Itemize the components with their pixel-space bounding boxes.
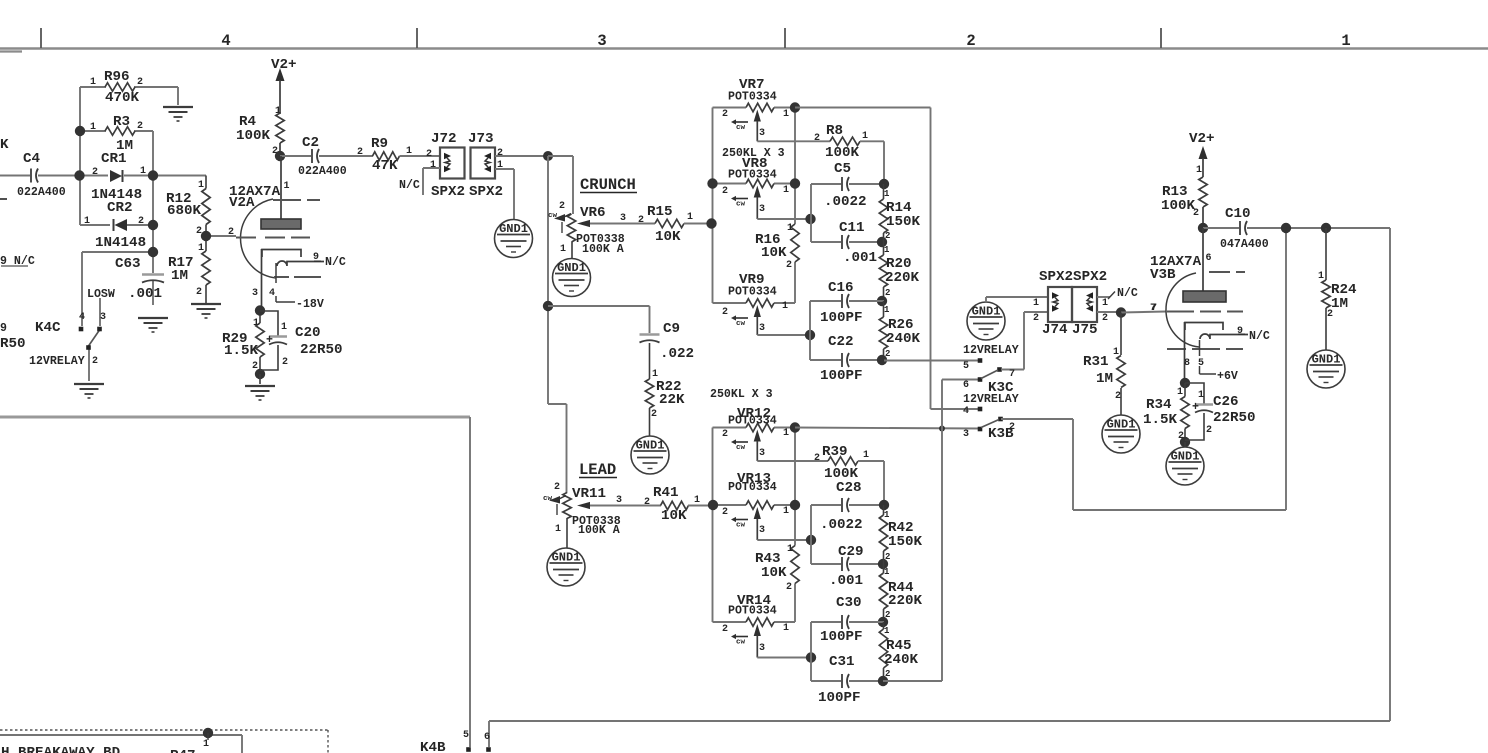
svg-text:1: 1	[687, 212, 693, 223]
svg-text:LOSW: LOSW	[87, 288, 115, 301]
svg-text:1M: 1M	[171, 268, 188, 284]
svg-text:cw: cw	[736, 124, 746, 132]
svg-text:C11: C11	[839, 220, 865, 236]
svg-text:1: 1	[1341, 32, 1350, 50]
svg-text:1: 1	[782, 301, 788, 312]
svg-text:.022: .022	[660, 346, 694, 362]
svg-text:3: 3	[252, 288, 258, 299]
svg-text:1: 1	[430, 160, 436, 171]
svg-text:2: 2	[228, 227, 234, 238]
svg-text:J72: J72	[431, 131, 457, 147]
svg-text:1: 1	[1318, 271, 1324, 282]
svg-text:K4B: K4B	[420, 740, 446, 753]
svg-text:3: 3	[759, 204, 765, 215]
svg-text:2: 2	[722, 624, 728, 635]
svg-text:1: 1	[203, 739, 209, 750]
svg-text:2: 2	[722, 307, 728, 318]
svg-text:047A400: 047A400	[1220, 238, 1269, 251]
svg-text:100K: 100K	[1161, 198, 1196, 214]
svg-text:SPX2: SPX2	[469, 184, 503, 200]
svg-text:2: 2	[92, 356, 98, 367]
svg-text:2: 2	[786, 260, 792, 271]
svg-text:2: 2	[1033, 313, 1039, 324]
svg-text:2: 2	[651, 409, 657, 420]
svg-text:C20: C20	[295, 325, 321, 341]
svg-text:12VRELAY: 12VRELAY	[29, 355, 85, 368]
svg-text:2: 2	[137, 121, 143, 132]
svg-text:2: 2	[722, 109, 728, 120]
svg-text:3: 3	[963, 429, 969, 440]
svg-text:VR6: VR6	[580, 205, 606, 221]
svg-text:2: 2	[1206, 425, 1212, 436]
svg-text:J75: J75	[1072, 322, 1098, 338]
svg-text:1: 1	[884, 189, 890, 199]
svg-text:680K: 680K	[167, 203, 202, 219]
svg-text:5: 5	[963, 361, 969, 372]
svg-text:100PF: 100PF	[818, 690, 861, 706]
svg-text:R31: R31	[1083, 354, 1109, 370]
svg-text:2: 2	[786, 582, 792, 593]
svg-text:10K: 10K	[761, 245, 787, 261]
svg-text:1: 1	[884, 305, 890, 315]
svg-text:3: 3	[759, 643, 765, 654]
svg-text:POT0334: POT0334	[728, 91, 777, 104]
svg-text:2: 2	[282, 357, 288, 368]
svg-text:C29: C29	[838, 544, 864, 560]
svg-text:N/C: N/C	[325, 256, 346, 269]
svg-text:2: 2	[1115, 391, 1121, 402]
svg-text:1: 1	[90, 77, 96, 88]
svg-text:10K: 10K	[661, 508, 687, 524]
svg-text:1: 1	[884, 510, 890, 520]
svg-text:R3: R3	[113, 114, 130, 130]
svg-text:3: 3	[759, 448, 765, 459]
svg-text:2: 2	[1193, 208, 1199, 219]
svg-text:CR1: CR1	[101, 151, 127, 167]
svg-text:1: 1	[84, 216, 90, 227]
svg-text:1: 1	[783, 623, 789, 634]
svg-text:2: 2	[196, 287, 202, 298]
svg-text:C2: C2	[302, 135, 319, 151]
svg-text:22K: 22K	[659, 392, 685, 408]
svg-text:1: 1	[198, 180, 204, 191]
svg-text:9: 9	[0, 322, 7, 335]
svg-text:2: 2	[497, 148, 503, 159]
svg-text:3: 3	[759, 525, 765, 536]
svg-text:.001: .001	[843, 250, 877, 266]
svg-text:V3B: V3B	[1150, 267, 1176, 283]
svg-text:POT0334: POT0334	[728, 415, 777, 428]
svg-text:2: 2	[885, 552, 890, 562]
svg-text:2: 2	[814, 133, 820, 144]
svg-text:R41: R41	[653, 485, 679, 501]
svg-text:1: 1	[284, 181, 290, 192]
svg-text:2: 2	[722, 429, 728, 440]
svg-text:C28: C28	[836, 480, 862, 496]
svg-text:C4: C4	[23, 151, 41, 167]
svg-text:1: 1	[1177, 387, 1183, 398]
svg-text:12VRELAY: 12VRELAY	[963, 393, 1019, 406]
svg-text:100K A: 100K A	[582, 243, 624, 256]
svg-text:+: +	[266, 334, 273, 347]
svg-text:3: 3	[620, 213, 626, 224]
svg-text:240K: 240K	[884, 652, 919, 668]
svg-text:SPX2SPX2: SPX2SPX2	[1039, 269, 1107, 285]
svg-text:1N4148: 1N4148	[95, 235, 146, 251]
svg-text:1: 1	[198, 243, 204, 254]
svg-text:7: 7	[1151, 303, 1157, 314]
svg-text:5: 5	[463, 730, 469, 741]
svg-text:2: 2	[426, 149, 432, 160]
svg-text:1: 1	[1196, 165, 1202, 176]
svg-text:1: 1	[90, 122, 96, 133]
svg-text:cw: cw	[736, 320, 746, 328]
svg-text:9: 9	[1237, 326, 1243, 337]
svg-text:C31: C31	[829, 654, 855, 670]
svg-text:1M: 1M	[1096, 371, 1113, 387]
svg-text:H BREAKAWAY BD: H BREAKAWAY BD	[1, 745, 120, 753]
svg-text:1: 1	[783, 109, 789, 120]
svg-text:220K: 220K	[888, 593, 923, 609]
svg-text:VR11: VR11	[572, 486, 606, 502]
svg-text:47K: 47K	[372, 158, 398, 174]
svg-text:022A400: 022A400	[298, 165, 347, 178]
svg-text:2: 2	[137, 77, 143, 88]
svg-text:C16: C16	[828, 280, 854, 296]
svg-text:R9: R9	[371, 136, 388, 152]
svg-text:22R50: 22R50	[1213, 410, 1256, 426]
svg-text:cw: cw	[736, 522, 746, 530]
svg-text:R47: R47	[170, 748, 196, 753]
svg-text:R34: R34	[1146, 397, 1172, 413]
svg-text:1: 1	[1033, 298, 1039, 309]
svg-text:R39: R39	[822, 444, 848, 460]
svg-text:1: 1	[787, 223, 793, 234]
svg-text:.001: .001	[128, 286, 162, 302]
svg-text:C10: C10	[1225, 206, 1251, 222]
svg-text:240K: 240K	[886, 331, 921, 347]
svg-text:1: 1	[862, 131, 868, 142]
svg-text:2: 2	[722, 186, 728, 197]
svg-text:2: 2	[722, 507, 728, 518]
svg-text:4: 4	[269, 288, 275, 299]
svg-text:cw: cw	[543, 495, 553, 503]
svg-text:C30: C30	[836, 595, 862, 611]
svg-text:022A400: 022A400	[17, 186, 66, 199]
svg-text:CRUNCH: CRUNCH	[580, 176, 636, 194]
svg-text:LEAD: LEAD	[579, 461, 616, 479]
svg-text:cw: cw	[736, 201, 746, 209]
svg-text:3: 3	[759, 128, 765, 139]
svg-text:8: 8	[1184, 358, 1190, 369]
svg-text:.0022: .0022	[824, 194, 867, 210]
svg-text:-18V: -18V	[296, 298, 324, 311]
svg-text:1: 1	[787, 544, 793, 555]
svg-text:100K: 100K	[825, 145, 860, 161]
svg-text:J73: J73	[468, 131, 494, 147]
svg-text:3: 3	[597, 32, 606, 50]
svg-text:C5: C5	[834, 161, 851, 177]
svg-text:1: 1	[140, 166, 146, 177]
svg-text:POT0334: POT0334	[728, 286, 777, 299]
svg-text:1M: 1M	[1331, 296, 1348, 312]
svg-text:C9: C9	[663, 321, 680, 337]
svg-text:POT0334: POT0334	[728, 481, 777, 494]
svg-text:C26: C26	[1213, 394, 1239, 410]
svg-text:2: 2	[966, 32, 975, 50]
svg-text:12VRELAY: 12VRELAY	[963, 344, 1019, 357]
svg-text:K4C: K4C	[35, 320, 61, 336]
svg-text:1: 1	[783, 506, 789, 517]
svg-text:1: 1	[555, 524, 561, 535]
svg-text:J74: J74	[1042, 322, 1068, 338]
svg-text:POT0334: POT0334	[728, 605, 777, 618]
svg-text:100PF: 100PF	[820, 310, 863, 326]
svg-text:1.5K: 1.5K	[1143, 412, 1178, 428]
svg-text:2: 2	[644, 497, 650, 508]
svg-text:220K: 220K	[885, 270, 920, 286]
svg-text:cw: cw	[736, 639, 746, 647]
svg-text:1.5K: 1.5K	[224, 343, 259, 359]
svg-text:1: 1	[884, 245, 890, 255]
svg-text:+6V: +6V	[1217, 370, 1238, 383]
svg-text:R8: R8	[826, 123, 843, 139]
svg-text:POT0334: POT0334	[728, 169, 777, 182]
svg-text:2: 2	[554, 482, 560, 493]
svg-text:470K: 470K	[105, 90, 140, 106]
svg-text:2: 2	[638, 215, 644, 226]
svg-text:1: 1	[281, 322, 287, 333]
svg-text:1: 1	[1102, 298, 1108, 309]
svg-text:2: 2	[138, 216, 144, 227]
svg-text:N/C: N/C	[1117, 287, 1138, 300]
svg-text:CR2: CR2	[107, 200, 133, 216]
svg-text:1: 1	[694, 495, 700, 506]
svg-text:1: 1	[884, 567, 890, 577]
svg-text:2: 2	[1327, 309, 1333, 320]
svg-text:2: 2	[885, 288, 890, 298]
svg-text:22R50: 22R50	[300, 342, 343, 358]
svg-text:150K: 150K	[888, 534, 923, 550]
svg-text:2: 2	[814, 453, 820, 464]
svg-text:1: 1	[884, 626, 890, 636]
svg-text:1: 1	[863, 450, 869, 461]
svg-text:6: 6	[1206, 253, 1212, 264]
svg-text:6: 6	[484, 732, 490, 743]
svg-text:1: 1	[253, 318, 259, 329]
svg-text:R96: R96	[104, 69, 130, 85]
svg-text:10K: 10K	[655, 229, 681, 245]
svg-text:2: 2	[92, 167, 98, 178]
svg-text:1: 1	[783, 428, 789, 439]
svg-text:1: 1	[1198, 390, 1204, 401]
svg-text:6: 6	[963, 380, 969, 391]
svg-text:C63: C63	[115, 256, 141, 272]
svg-text:150K: 150K	[886, 214, 921, 230]
svg-text:100K: 100K	[236, 128, 271, 144]
svg-text:10K: 10K	[761, 565, 787, 581]
svg-text:100PF: 100PF	[820, 629, 863, 645]
svg-text:2: 2	[559, 201, 565, 212]
svg-text:cw: cw	[736, 444, 746, 452]
svg-text:3: 3	[759, 323, 765, 334]
svg-text:4: 4	[963, 406, 969, 417]
svg-text:N/C: N/C	[1249, 330, 1270, 343]
svg-text:100K A: 100K A	[578, 524, 620, 537]
svg-text:7: 7	[1009, 369, 1015, 380]
svg-text:250KL X 3: 250KL X 3	[710, 388, 773, 401]
svg-text:V2A: V2A	[229, 195, 255, 211]
svg-text:R50: R50	[0, 336, 26, 352]
svg-text:N/C: N/C	[399, 179, 420, 192]
svg-text:.001: .001	[829, 573, 863, 589]
svg-text:2: 2	[357, 147, 363, 158]
svg-text:2: 2	[885, 231, 890, 241]
svg-text:K: K	[0, 137, 9, 153]
svg-text:3: 3	[616, 495, 622, 506]
svg-text:SPX2: SPX2	[431, 184, 465, 200]
svg-text:K3B: K3B	[988, 426, 1014, 442]
svg-text:1: 1	[783, 185, 789, 196]
svg-text:+: +	[1192, 401, 1199, 414]
svg-text:V2+: V2+	[271, 57, 297, 73]
svg-text:.0022: .0022	[820, 517, 863, 533]
svg-text:4: 4	[221, 32, 230, 50]
svg-text:1: 1	[560, 244, 566, 255]
svg-text:4: 4	[79, 312, 85, 323]
svg-text:C22: C22	[828, 334, 854, 350]
svg-text:2: 2	[1102, 313, 1108, 324]
svg-text:R15: R15	[647, 204, 673, 220]
svg-text:3: 3	[100, 312, 106, 323]
svg-text:100PF: 100PF	[820, 368, 863, 384]
svg-text:V2+: V2+	[1189, 131, 1215, 147]
